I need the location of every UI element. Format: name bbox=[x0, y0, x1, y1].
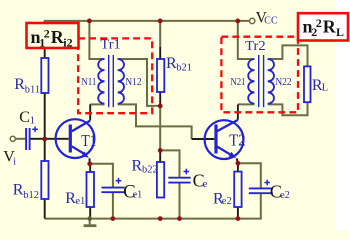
svg-text:T1: T1 bbox=[81, 131, 96, 150]
svg-text:b22: b22 bbox=[142, 165, 158, 176]
svg-text:e1: e1 bbox=[133, 188, 143, 200]
svg-text:b21: b21 bbox=[176, 62, 192, 73]
svg-text:e1: e1 bbox=[75, 196, 85, 207]
svg-text:CC: CC bbox=[264, 16, 278, 27]
svg-text:b12: b12 bbox=[23, 190, 39, 201]
svg-text:L: L bbox=[322, 82, 328, 93]
svg-text:2: 2 bbox=[316, 16, 322, 30]
svg-text:T2: T2 bbox=[229, 130, 245, 149]
svg-text:e2: e2 bbox=[280, 189, 289, 201]
svg-text:N21: N21 bbox=[230, 77, 245, 88]
svg-text:R: R bbox=[132, 157, 143, 174]
svg-text:e: e bbox=[203, 178, 208, 190]
svg-text:R: R bbox=[13, 181, 24, 198]
svg-text:N11: N11 bbox=[81, 77, 96, 88]
svg-text:1: 1 bbox=[30, 116, 35, 127]
svg-text:i2: i2 bbox=[63, 36, 72, 50]
svg-text:Tr1: Tr1 bbox=[100, 38, 120, 53]
svg-text:L: L bbox=[336, 25, 344, 39]
svg-text:Tr2: Tr2 bbox=[245, 39, 265, 54]
svg-text:C: C bbox=[19, 109, 30, 126]
svg-text:b11: b11 bbox=[25, 84, 40, 95]
svg-text:R: R bbox=[323, 17, 337, 37]
svg-text:i: i bbox=[13, 156, 16, 167]
svg-text:2: 2 bbox=[44, 27, 50, 41]
svg-text:N22: N22 bbox=[275, 77, 291, 88]
svg-text:e2: e2 bbox=[222, 196, 232, 207]
svg-text:R: R bbox=[14, 76, 25, 93]
svg-text:N12: N12 bbox=[125, 77, 141, 88]
